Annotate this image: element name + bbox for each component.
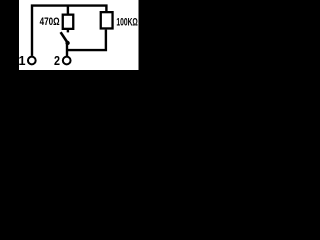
- svg-text:2: 2: [54, 54, 60, 68]
- svg-text:100KΩ: 100KΩ: [116, 17, 138, 29]
- svg-text:1: 1: [19, 54, 26, 68]
- svg-text:470Ω: 470Ω: [40, 16, 60, 28]
